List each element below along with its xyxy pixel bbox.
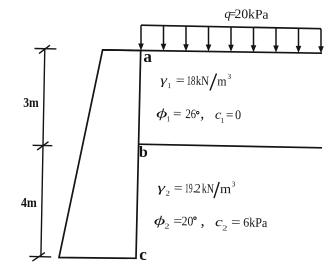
svg-text:=: = [176,73,185,88]
svg-text:m: m [220,181,231,196]
svg-text:20kPa: 20kPa [234,6,269,22]
svg-text:4m: 4m [21,196,37,211]
svg-text:6kPa: 6kPa [243,215,268,231]
svg-text:=: = [173,106,182,121]
svg-text:19: 19 [185,180,193,195]
svg-text:=: = [231,214,241,229]
svg-text:1: 1 [166,114,170,123]
svg-text:3: 3 [227,72,231,81]
svg-text:,: , [201,213,205,230]
svg-text:20: 20 [181,213,193,228]
svg-text:26: 26 [185,106,196,121]
svg-text:b: b [139,144,148,161]
svg-text:2: 2 [222,223,228,232]
svg-text:m: m [217,73,227,88]
svg-text:0: 0 [235,107,241,122]
svg-text:1: 1 [167,81,171,90]
svg-text:1: 1 [220,116,224,125]
svg-text:2: 2 [195,180,201,195]
svg-text:18: 18 [187,73,196,88]
svg-text:kN: kN [196,73,210,88]
svg-text:2: 2 [165,189,170,198]
svg-text:c: c [139,245,147,263]
svg-text:3m: 3m [23,96,39,111]
svg-text:=: = [174,180,183,195]
svg-text:,: , [200,105,204,122]
svg-text:3: 3 [232,179,236,188]
svg-text:a: a [143,47,152,66]
svg-text:kN: kN [202,181,215,196]
svg-text:=: = [226,107,234,122]
svg-text:2: 2 [164,222,170,231]
